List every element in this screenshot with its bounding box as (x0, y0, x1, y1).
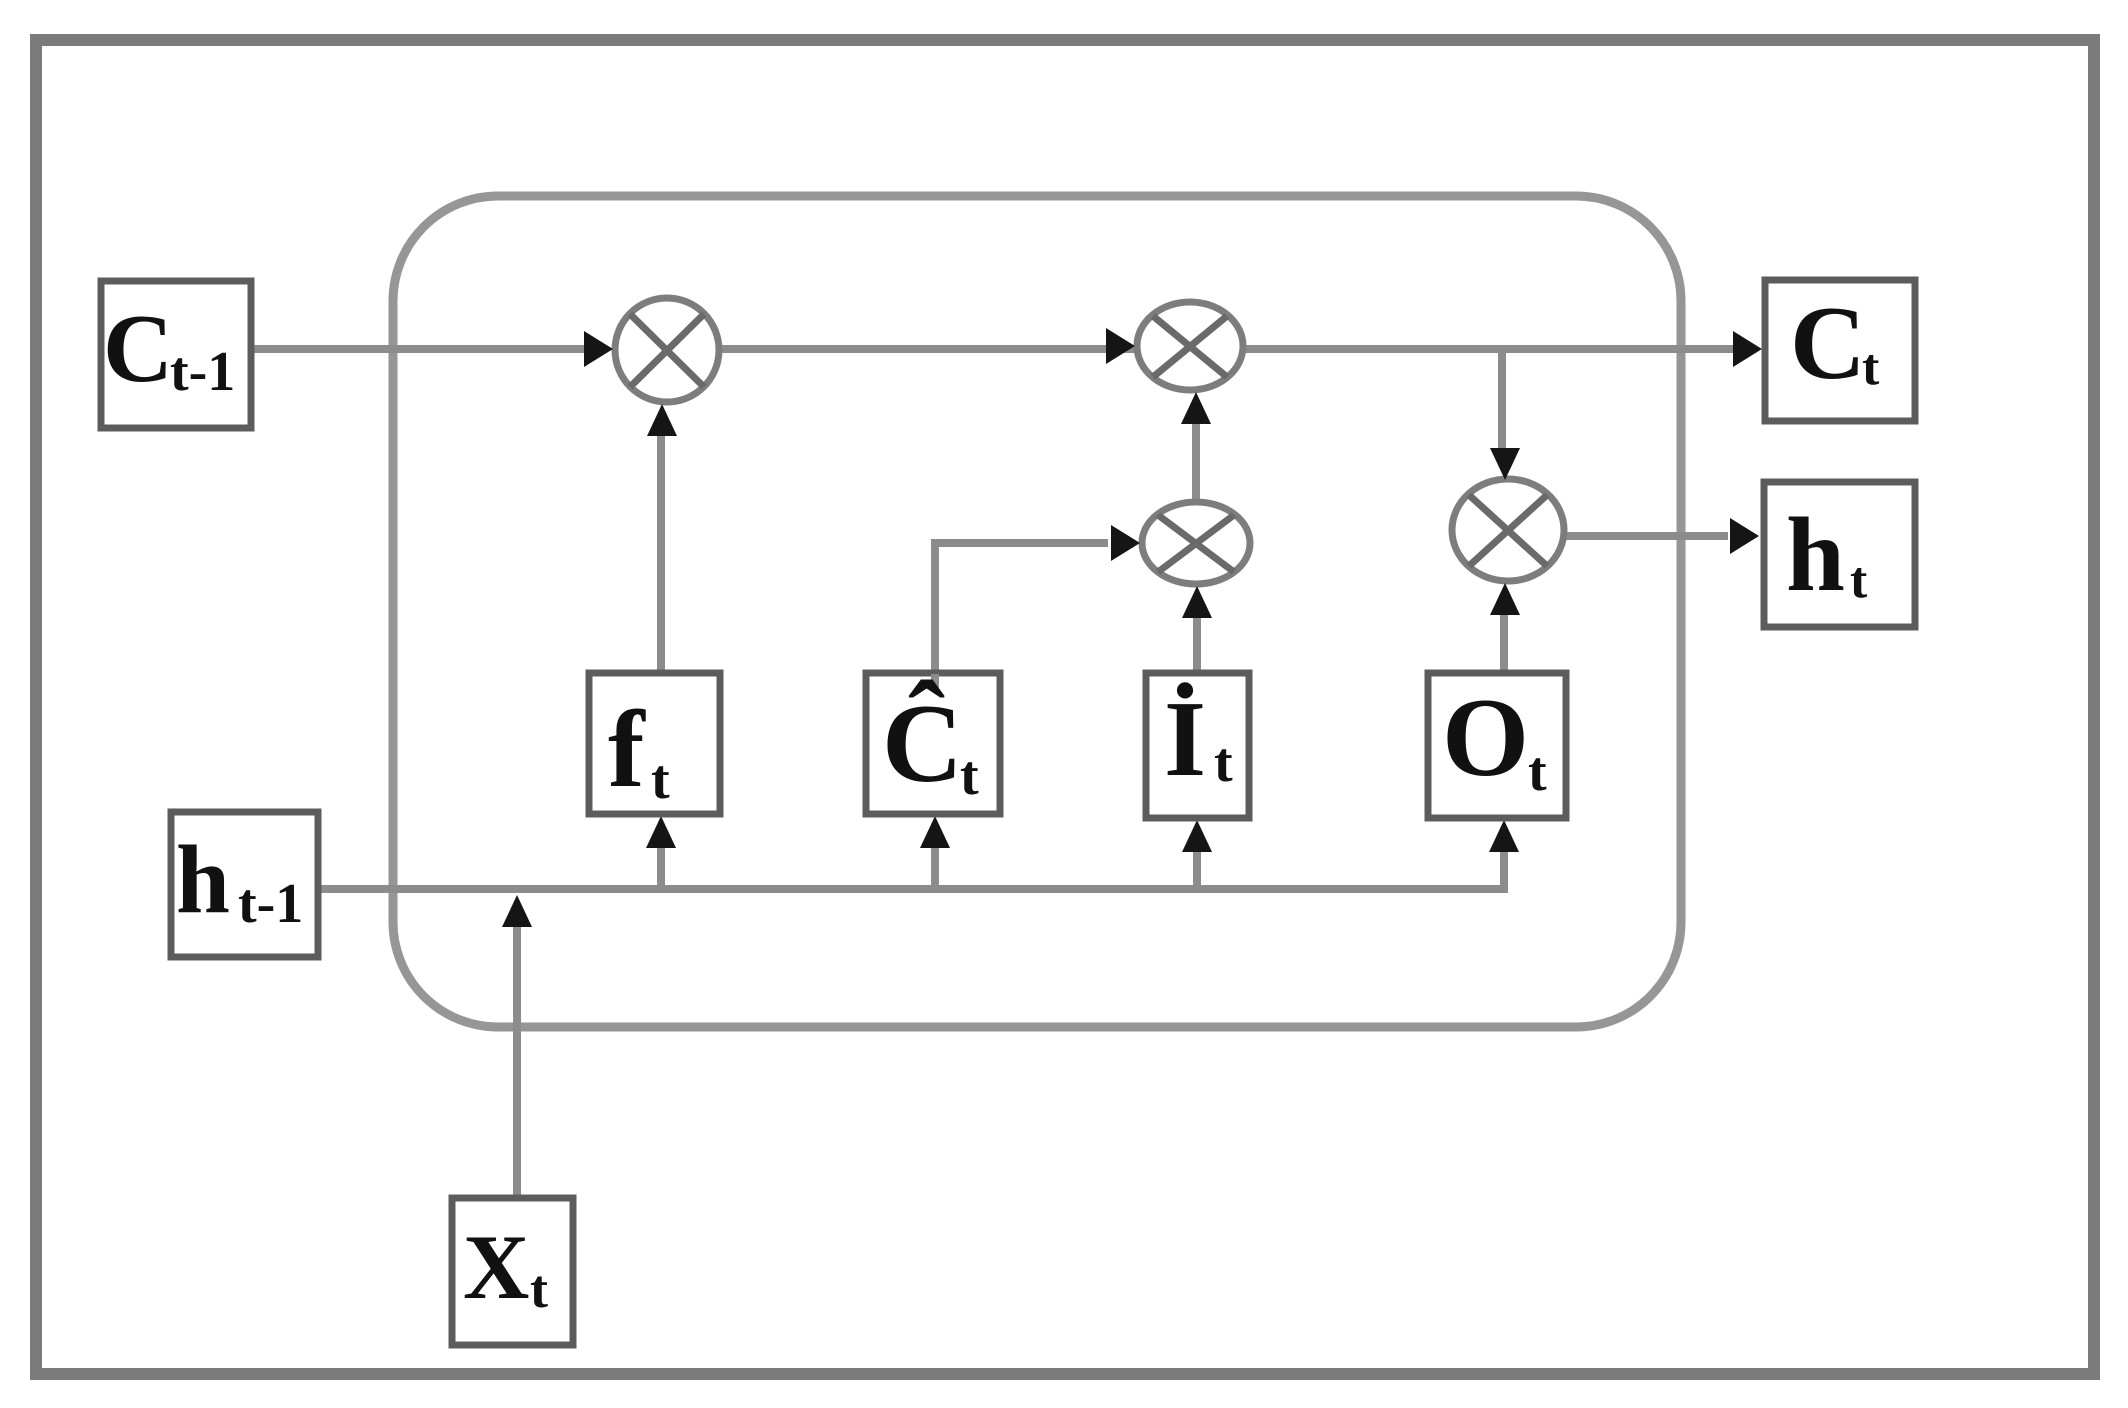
svg-text:t: t (1850, 552, 1868, 609)
svg-text:C: C (103, 295, 173, 402)
svg-text:Ĉ: Ĉ (882, 679, 963, 806)
svg-text:t-1: t-1 (238, 873, 303, 935)
svg-text:t: t (651, 749, 670, 811)
svg-text:O: O (1442, 676, 1529, 800)
svg-text:İ: İ (1164, 680, 1206, 799)
svg-text:t: t (1862, 339, 1880, 396)
svg-text:t-1: t-1 (170, 341, 235, 403)
svg-text:t: t (960, 745, 979, 807)
svg-text:t: t (530, 1259, 548, 1319)
svg-text:t: t (1214, 732, 1233, 794)
svg-text:t: t (1528, 741, 1547, 803)
svg-text:h: h (176, 826, 230, 933)
svg-text:C: C (1790, 284, 1866, 401)
svg-text:X: X (463, 1216, 529, 1318)
svg-text:h: h (1786, 496, 1845, 613)
svg-text:f: f (608, 688, 646, 810)
